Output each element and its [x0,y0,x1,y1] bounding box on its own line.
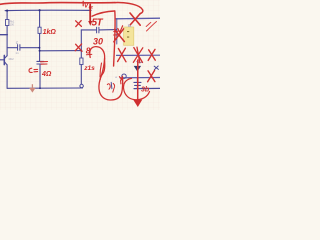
wire middle branch [39,33,41,61]
red vertical arrow right [137,60,139,100]
red big arrowhead [133,100,142,107]
wire bottom right rail [134,87,160,89]
wire left rail vertical [6,11,8,56]
blue ink: circuit [0,10,160,89]
svg-text:5T: 5T [92,17,104,28]
wire middle branch lower [39,64,41,88]
red small arrowhead [88,21,92,26]
red diagonal marks right [146,22,156,32]
paper background [0,0,160,110]
wire cap left [7,47,17,49]
svg-text:3b: 3b [141,86,150,93]
X7 at junction [75,44,82,51]
wire right top rail [116,17,160,20]
red circle right (around C4) [124,78,150,99]
node W3 corner [39,50,41,52]
blue tick in circle [110,82,113,88]
wire red top line [0,3,115,5]
red texts [41,3,150,94]
yellow sticky note [124,27,134,45]
X4 on lower wire [148,70,155,81]
wire stub to left edge [0,34,7,36]
X mark left of 5T [76,21,82,27]
red arrow curve [115,3,143,14]
red U loop mid [99,58,123,100]
capacitor C3 [97,27,99,33]
transistor Q1 [3,55,5,64]
resistor R3 [80,58,83,65]
wire cap right [20,47,39,49]
wire W2 left [81,29,96,31]
red gamma mark [119,76,122,84]
resistor R2 [38,27,41,33]
red = strokes [114,31,118,35]
capacitor C1 [18,45,20,51]
wire W2 right [99,29,116,31]
red box top edge [92,11,114,16]
wire right branch vertical [116,19,118,44]
wire base link [39,50,81,52]
red pink arrow on bottom rail [31,84,33,88]
svg-text:100: 100 [10,23,15,27]
wire emitter rail [6,65,8,89]
label Vcc tick [82,1,84,6]
node W3-R3 [80,50,82,52]
svg-text:30: 30 [93,37,103,47]
X1 on row [118,48,126,62]
wire top rail [5,9,91,11]
wire branch x81 vertical [80,30,82,58]
red 8 underline [86,53,91,55]
node top-mid [39,9,41,11]
svg-text:4Ω: 4Ω [41,71,52,78]
svg-text:z1s: z1s [83,65,95,72]
red c= mark [29,68,38,72]
red delta stem [90,47,105,80]
wire C4 stem [136,78,138,89]
ground symbol [134,66,141,72]
svg-text:1n: 1n [15,51,19,55]
red vertical at 5T [89,5,91,22]
red stem second stroke [100,63,102,77]
capacitor C2 bars [37,61,44,64]
wire bottom rail [7,87,82,89]
wire middle branch upper [39,10,41,27]
blue scribble under X2 [137,62,142,63]
blue X mark [154,66,158,70]
node bottom rail mid [39,87,41,89]
svg-text:8: 8 [86,46,91,56]
X2 double on row [133,47,142,63]
tiny labels gray [9,20,132,79]
svg-text:cc: cc [89,5,94,10]
wire R3 lower [80,65,82,84]
X5 at note [114,29,125,42]
svg-text:1kΩ: 1kΩ [43,29,57,36]
red checkmark [118,26,123,33]
svg-text:Rb2: Rb2 [9,57,15,61]
red strike on C2 [41,62,48,65]
capacitor C4 [134,82,141,85]
junction dots [6,9,82,89]
node top-left [6,10,8,12]
node cap tee [38,47,40,49]
wire X-row [117,54,161,56]
X6 on right rail [130,13,140,25]
wire lower right [120,77,160,79]
resistor R1 [6,20,9,26]
X3 on row [148,49,155,60]
node loop at rail [80,84,83,87]
red ink: corrections [0,1,157,107]
red squiggle in loop [107,83,114,92]
node circle on wire [122,74,126,78]
red box right edge [114,11,116,66]
